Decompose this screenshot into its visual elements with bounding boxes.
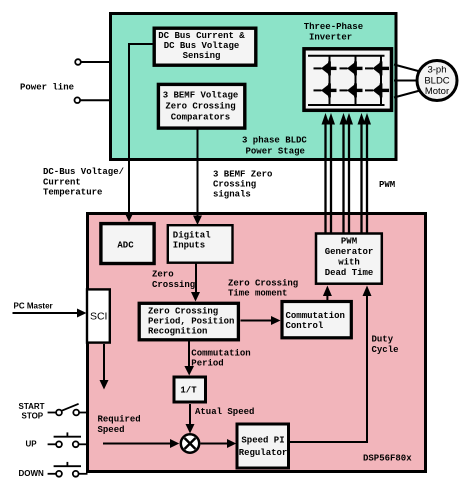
svg-text:Temperature: Temperature bbox=[43, 188, 102, 198]
svg-text:DC Bus Current &: DC Bus Current & bbox=[158, 31, 245, 41]
svg-text:1/T: 1/T bbox=[180, 386, 197, 396]
motor phase wire 3 bbox=[394, 91, 420, 98]
label: DSP56F80x bbox=[363, 454, 412, 464]
wire: multiplier to Speed PI Regulator bbox=[201, 439, 237, 448]
wire: Digital Inputs to Zero Crossing block bbox=[191, 264, 200, 302]
svg-text:Atual Speed: Atual Speed bbox=[195, 407, 254, 417]
svg-text:Dead Time: Dead Time bbox=[325, 268, 374, 278]
block: PWM Generator with Dead Time bbox=[316, 234, 382, 284]
svg-text:3 BEMF Zero: 3 BEMF Zero bbox=[213, 170, 272, 180]
svg-text:Regulator: Regulator bbox=[239, 448, 288, 458]
switch S3 DOWN (pushbutton) bbox=[19, 462, 88, 478]
block: Commutation Control bbox=[282, 302, 351, 338]
svg-text:Speed PI: Speed PI bbox=[241, 436, 284, 446]
block: 1/T bbox=[174, 377, 206, 402]
svg-text:Period, Position: Period, Position bbox=[148, 317, 234, 327]
svg-text:Recognition: Recognition bbox=[148, 327, 207, 337]
svg-text:UP: UP bbox=[26, 440, 38, 449]
svg-text:DOWN: DOWN bbox=[19, 469, 45, 478]
svg-text:Zero Crossing: Zero Crossing bbox=[165, 102, 235, 112]
label: Atual Speed bbox=[195, 407, 254, 417]
svg-text:Motor: Motor bbox=[425, 86, 449, 97]
svg-text:Duty: Duty bbox=[372, 335, 394, 345]
svg-text:Commutation: Commutation bbox=[286, 311, 345, 321]
power line terminal 2 bbox=[75, 97, 111, 103]
transistor Q5 (top phase C) bbox=[365, 61, 389, 75]
svg-text:DC-Bus Voltage/: DC-Bus Voltage/ bbox=[43, 167, 124, 177]
inverter bottom bus wire bbox=[308, 104, 385, 106]
svg-text:Period: Period bbox=[191, 358, 223, 368]
pwm wire 4 bbox=[345, 113, 353, 234]
svg-text:3 BEMF Voltage: 3 BEMF Voltage bbox=[163, 91, 239, 101]
pwm wire 3 bbox=[340, 113, 348, 234]
pwm wire 5 bbox=[358, 113, 366, 234]
block: Digital Inputs bbox=[168, 225, 233, 263]
svg-text:Current: Current bbox=[43, 177, 81, 187]
svg-text:PC Master: PC Master bbox=[14, 302, 53, 311]
svg-text:Crossing: Crossing bbox=[213, 180, 256, 190]
wire: DC bus sensing to ADC bbox=[125, 44, 155, 222]
svg-text:3-ph: 3-ph bbox=[427, 65, 446, 76]
svg-text:Digital: Digital bbox=[173, 231, 211, 241]
wire: SCI output (down arrow) bbox=[100, 344, 109, 390]
label: Zero Crossing bbox=[152, 270, 195, 290]
label: Zero Crossing Time moment bbox=[228, 279, 298, 299]
transistor Q6 (bottom phase C) bbox=[365, 83, 389, 97]
svg-text:SCI: SCI bbox=[90, 311, 108, 323]
wire: Speed PI Regulator to PWM Generator (duty cycle) bbox=[289, 286, 372, 443]
wire: 1/T to multiplier bbox=[186, 404, 195, 434]
block: SCI bbox=[87, 289, 110, 342]
block: 3 BEMF Voltage Zero Crossing Comparators bbox=[158, 84, 244, 128]
svg-text:PWM: PWM bbox=[341, 237, 357, 247]
svg-text:Required: Required bbox=[98, 414, 141, 424]
svg-text:3 phase BLDC: 3 phase BLDC bbox=[242, 136, 307, 146]
svg-text:Zero Crossing: Zero Crossing bbox=[228, 279, 298, 289]
motor phase wire 1 bbox=[394, 65, 420, 72]
switch S1 START/STOP bbox=[19, 402, 88, 420]
svg-text:ADC: ADC bbox=[117, 241, 134, 251]
block: Zero Crossing Period, Position Recognition bbox=[139, 303, 238, 340]
svg-text:Zero Crossing: Zero Crossing bbox=[148, 307, 218, 317]
pwm wire 6 bbox=[363, 113, 371, 234]
pwm wire 1 bbox=[322, 113, 330, 234]
pwm wire 2 bbox=[327, 113, 335, 234]
inverter phase rail C bbox=[380, 56, 382, 105]
svg-text:Inverter: Inverter bbox=[309, 33, 352, 43]
svg-text:signals: signals bbox=[213, 190, 251, 200]
transistor Q1 (top phase A) bbox=[314, 61, 337, 75]
label: Three-Phase Inverter bbox=[304, 22, 363, 43]
svg-text:Zero: Zero bbox=[152, 270, 174, 280]
svg-text:Comparators: Comparators bbox=[171, 113, 230, 123]
svg-text:DSP56F80x: DSP56F80x bbox=[363, 454, 412, 464]
transistor Q2 (bottom phase A) bbox=[314, 83, 337, 97]
svg-text:START: START bbox=[19, 402, 45, 411]
label: Required Speed bbox=[98, 414, 141, 435]
label: Commutation Period bbox=[191, 348, 250, 368]
wire: PC Master to SCI bbox=[13, 309, 87, 318]
svg-text:Control: Control bbox=[286, 321, 324, 331]
svg-text:DC Bus Voltage: DC Bus Voltage bbox=[164, 41, 240, 51]
wire: Commutation Control to PWM Generator bbox=[323, 286, 332, 302]
svg-text:Inputs: Inputs bbox=[173, 241, 205, 251]
svg-text:PWM: PWM bbox=[379, 180, 395, 190]
label: PWM bbox=[379, 180, 395, 190]
block: ADC bbox=[101, 224, 154, 264]
label: 3 phase BLDC Power Stage bbox=[242, 136, 307, 157]
transistor Q4 (bottom phase B) bbox=[340, 83, 363, 97]
label: PC Master bbox=[14, 302, 53, 311]
transistor Q3 (top phase B) bbox=[340, 61, 363, 75]
svg-text:STOP: STOP bbox=[22, 411, 44, 420]
wire: BEMF comparators to Digital Inputs bbox=[193, 128, 202, 225]
svg-text:with: with bbox=[338, 258, 360, 268]
motor phase wire 2 bbox=[394, 80, 417, 82]
svg-text:Speed: Speed bbox=[98, 425, 125, 435]
switch S2 UP (pushbutton) bbox=[26, 432, 88, 448]
svg-text:Three-Phase: Three-Phase bbox=[304, 22, 363, 32]
svg-text:Power line: Power line bbox=[20, 83, 74, 93]
multiplier node (speed error) bbox=[181, 434, 199, 452]
inverter phase rail B bbox=[355, 56, 357, 105]
label: Duty Cycle bbox=[372, 335, 399, 355]
power stage green block bbox=[111, 14, 397, 160]
power line terminal 1 bbox=[75, 59, 110, 65]
label: 3 BEMF Zero Crossing signals bbox=[213, 170, 272, 200]
inverter U1 box bbox=[304, 49, 392, 111]
svg-text:Power Stage: Power Stage bbox=[246, 147, 305, 157]
svg-text:Cycle: Cycle bbox=[372, 345, 399, 355]
svg-text:Time moment: Time moment bbox=[228, 289, 287, 299]
block: Speed PI Regulator bbox=[237, 424, 289, 468]
svg-text:Crossing: Crossing bbox=[152, 280, 195, 290]
inverter phase rail A bbox=[329, 56, 331, 105]
wire: required speed into multiplier bbox=[103, 439, 179, 448]
wire: Zero Crossing block to Commutation Control bbox=[241, 316, 281, 325]
label: DC-Bus Voltage/Current Temperature bbox=[43, 167, 124, 198]
svg-text:Commutation: Commutation bbox=[191, 348, 250, 358]
motor M1 (3-ph BLDC Motor) bbox=[417, 61, 457, 101]
DSP56F80x pink block bbox=[88, 214, 426, 472]
svg-text:Generator: Generator bbox=[325, 247, 374, 257]
block: DC Bus Current & DC Bus Voltage Sensing bbox=[154, 28, 256, 65]
wire: Zero Crossing block to 1/T bbox=[184, 340, 194, 376]
inverter top bus wire bbox=[308, 55, 385, 57]
label: Power line bbox=[20, 83, 74, 93]
svg-text:Sensing: Sensing bbox=[183, 51, 221, 61]
svg-text:BLDC: BLDC bbox=[424, 76, 449, 87]
